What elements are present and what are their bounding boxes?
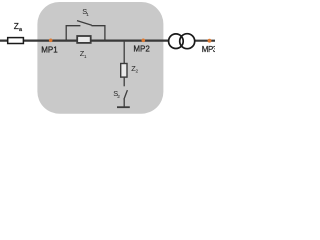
- switch S2: [124, 90, 128, 99]
- wire riser right of S1 branch: [92, 26, 105, 41]
- resistor Z2: [121, 64, 127, 78]
- ground: [117, 106, 130, 108]
- wire below Z2: [123, 78, 125, 87]
- node MP1: [49, 39, 53, 43]
- wire riser left of S1 branch: [66, 26, 80, 41]
- wire shunt down from junction: [123, 41, 125, 64]
- node MP3: [208, 39, 212, 43]
- switch S1: [77, 21, 92, 26]
- wire right of transformer: [195, 40, 215, 42]
- svg-text:MP3: MP3: [202, 45, 215, 54]
- svg-text:2: 2: [117, 94, 120, 100]
- svg-text:a: a: [19, 27, 22, 33]
- svg-text:1: 1: [84, 54, 87, 60]
- svg-text:MP1: MP1: [41, 46, 58, 55]
- gray enclosure: [37, 2, 163, 114]
- transformer winding fills: [169, 34, 184, 49]
- svg-text:MP2: MP2: [133, 44, 150, 53]
- svg-text:2: 2: [136, 69, 139, 75]
- wire main horizontal: [0, 39, 168, 41]
- node MP2: [142, 39, 146, 43]
- resistor Za: [8, 38, 24, 44]
- svg-text:1: 1: [86, 12, 89, 18]
- wire below S2: [123, 99, 125, 107]
- transformer left winding: [169, 34, 184, 49]
- transformer right winding: [180, 34, 195, 49]
- resistor Z1: [77, 36, 91, 43]
